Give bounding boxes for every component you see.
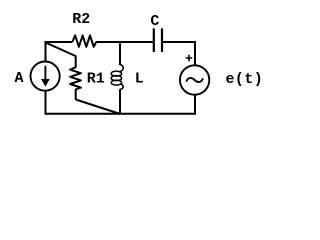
wire diagonal bottom from R1 [76, 100, 121, 115]
svg-text:e(t): e(t) [225, 71, 263, 88]
wire diagonal top to R1 [45, 42, 75, 56]
svg-text:L: L [135, 70, 144, 87]
svg-text:C: C [150, 13, 159, 30]
capacitor C [154, 28, 162, 52]
wire right vertical bottom [194, 95, 196, 115]
resistor R1 [70, 67, 81, 89]
wire left vertical bottom [45, 91, 47, 115]
inductor L [111, 65, 123, 90]
wire left vertical top [45, 41, 47, 61]
wire top-left horizontal [45, 41, 73, 43]
sine symbol [186, 78, 203, 82]
svg-text:R1: R1 [87, 70, 105, 87]
wire right vertical top [194, 41, 196, 65]
wire top-middle horizontal [96, 41, 153, 43]
arrow of current source [44, 66, 46, 80]
wire inductor top [119, 41, 121, 65]
wire top-right horizontal [163, 41, 196, 43]
wire bottom horizontal [45, 113, 196, 115]
plus polarity mark [186, 55, 193, 62]
svg-text:R2: R2 [72, 11, 90, 28]
wire R1 bottom stub [75, 89, 77, 100]
wire R1 top stub [75, 56, 77, 68]
svg-text:A: A [14, 70, 23, 87]
wire inductor bottom [119, 89, 121, 114]
voltage source U1 e(t) [180, 65, 209, 94]
current source A [30, 62, 59, 91]
resistor R2 [72, 35, 96, 46]
